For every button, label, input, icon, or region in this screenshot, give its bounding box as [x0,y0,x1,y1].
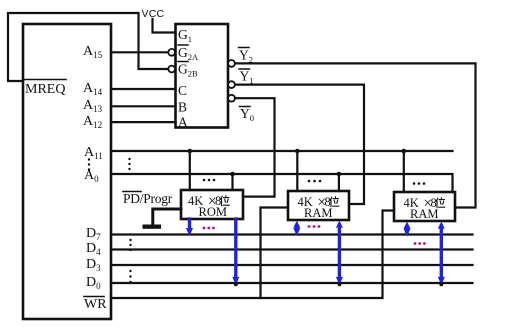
wire net Y1 to RAM1 select [235,85,364,204]
CPU U1 box [23,24,111,319]
svg-text:A: A [178,115,188,130]
wire A14 to C [111,88,176,90]
net label Y1 (overlined) [239,69,254,86]
wire data line D7 [111,233,473,235]
inversion bubble Y2 output [228,60,235,67]
ground [143,225,162,229]
wire A0 tap to RAM1 [338,174,340,191]
svg-text:A0: A0 [84,168,99,184]
net label Y0 (overlined) [240,106,255,123]
wire net Y0 to ROM select [235,98,275,196]
svg-text:Y0: Y0 [240,106,254,123]
ellipsis dots between D7 and D4 [129,239,131,251]
inversion bubble Y0 output [228,95,235,102]
junction dot ROM blue / D0 [234,282,238,286]
wire bus line A11 [111,150,453,152]
svg-text:B: B [178,100,187,115]
svg-text:RAM: RAM [304,206,332,220]
svg-text:G1: G1 [178,27,192,44]
blue data arrow RAM1 D0 (bidirectional) [336,221,343,286]
svg-text:PD/Progr: PD/Progr [123,191,173,206]
wire data line D0 [111,282,473,284]
junction dot RAM2 blue / D0 [439,282,443,286]
svg-text:A15: A15 [83,44,103,60]
svg-text:D7: D7 [86,226,101,242]
blue data arrow RAM2 D7 (bidirectional) [404,222,411,237]
hand-drawn CJK glyph wei(bit) for RAM2 [436,198,444,208]
svg-text:C: C [178,83,187,98]
pin label MREQ (overlined) [24,80,66,98]
ellipsis dots above ROM [203,179,216,182]
svg-text:ROM: ROM [199,205,227,219]
svg-text:RAM: RAM [410,207,438,221]
wire ROM PD pin to ground [153,209,181,225]
wire net Y2 to RAM2 select [235,63,476,207]
pin label G2B (overlined) [178,62,198,79]
hand-drawn CJK glyph wei(bit) for RAM1 [330,197,338,207]
wire data line D4 [111,248,473,250]
junction dot A11/RAM2 [402,149,407,154]
pin label WR (overlined) [84,297,107,313]
net label PD/Progr (PD overlined) [123,191,173,206]
wire A15 to G2A bubble [111,51,168,53]
wire WR line with corner up to RAM2 write pin [111,211,394,299]
inversion bubble Y1 output [228,81,235,88]
junction dot A0/ROM [230,172,235,177]
svg-text:G2A: G2A [178,45,199,62]
blue data arrow ROM D0 [232,219,239,285]
ellipsis dots on bus between A11 and A0 wires [128,158,130,170]
RAM2 chip box [394,192,455,221]
wire A11 tap to RAM1 [296,151,298,191]
pin label G2A (overlined) [178,45,199,62]
svg-text:A11: A11 [84,145,103,161]
junction dot A11/RAM1 [295,149,300,154]
wire A11 tap to ROM [189,151,191,190]
svg-text:A12: A12 [83,114,102,130]
inversion bubble G2A [168,49,175,56]
svg-text:D4: D4 [86,241,101,257]
magenta ellipsis dots below RAM1 [308,225,321,228]
junction dot RAM1 blue / D0 [337,282,341,286]
svg-text:G2B: G2B [178,62,198,79]
svg-text:WR: WR [84,297,107,312]
wire bus line A0 with corner down to RAM2 [111,174,453,192]
wire VCC to G1 [153,19,176,33]
decoder U2 box [176,24,229,128]
RAM1 chip box [288,191,349,220]
ellipsis dots between A11 and A0 labels [88,158,90,170]
ellipsis dots between D3 and D0 [129,270,131,283]
magenta ellipsis dots below RAM2 [414,242,426,245]
svg-text:Y2: Y2 [239,48,253,65]
junction dot A0/RAM1 [337,172,342,177]
blue data arrow ROM D7 [186,219,193,236]
ellipsis dots above RAM2 [413,182,426,185]
wire data line D3 [111,264,473,266]
svg-text:Y1: Y1 [240,69,254,86]
svg-text:A14: A14 [83,81,103,97]
svg-text:D3: D3 [86,257,101,273]
wire A12 to A [111,121,176,123]
wire A0 tap to ROM [231,174,233,190]
blue data arrow RAM2 D0 (bidirectional) [438,222,445,286]
magenta ellipsis dots below ROM [203,227,215,230]
wire A11 tap to RAM2 [403,151,405,192]
blue data arrow RAM1 D7 (bidirectional) [293,221,300,237]
svg-text:D0: D0 [86,275,101,291]
net label Y2 (overlined) [239,48,254,65]
wire RAM1 write pin tap to WR line [261,208,289,299]
ellipsis dots above RAM1 [308,180,322,183]
hand-drawn CJK glyph wei(bit) for ROM [221,196,229,206]
ROM chip box [181,190,243,219]
junction dot A11/ROM [188,149,193,154]
wire A13 to B [111,105,176,107]
svg-text:MREQ: MREQ [25,82,65,97]
svg-text:A13: A13 [83,98,103,114]
inversion bubble G2B [168,66,175,73]
wire MREQ from CPU left edge up and over to G2B bubble [8,13,168,81]
